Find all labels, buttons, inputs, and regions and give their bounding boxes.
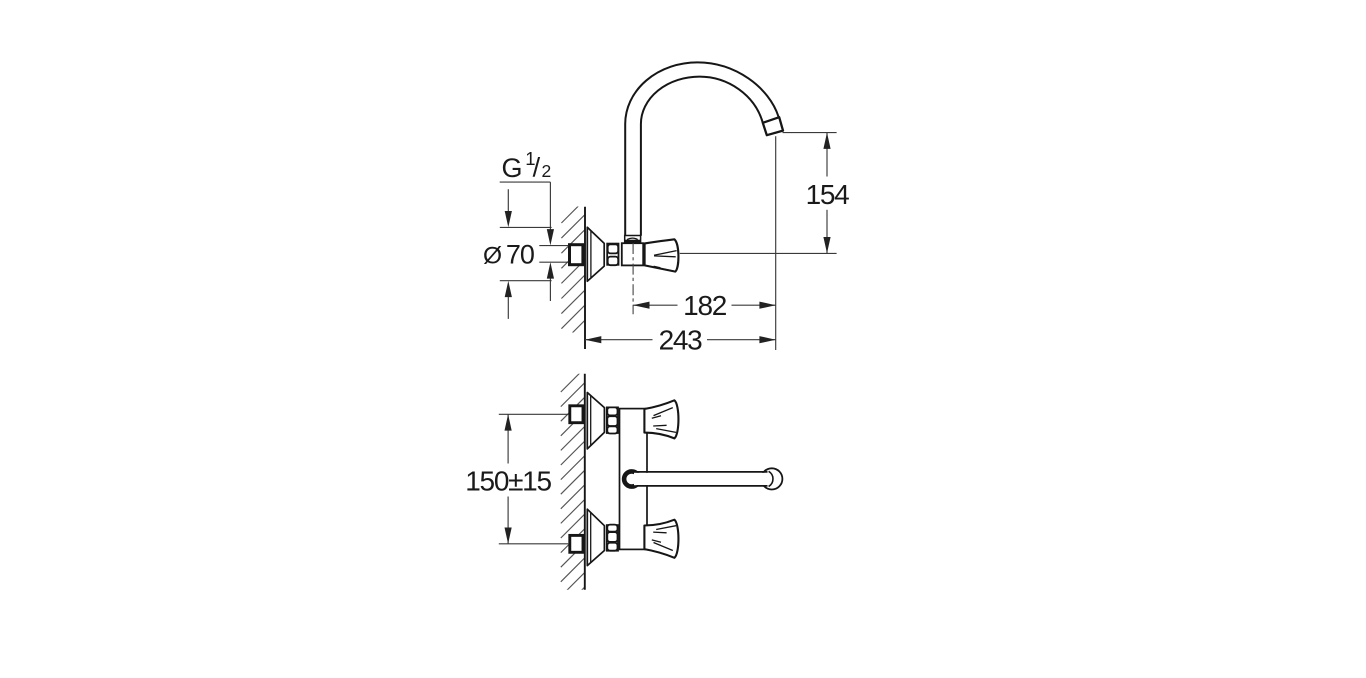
wall hatching (side view)	[561, 199, 585, 359]
spout tube end cap	[761, 468, 782, 489]
svg-text:G: G	[502, 153, 523, 183]
wall hatching (front view)	[561, 368, 585, 611]
handle knob (front view)	[644, 520, 678, 558]
svg-text:2: 2	[542, 161, 552, 181]
hex nut (front view)	[607, 525, 618, 551]
square fitting extension lines	[539, 245, 568, 247]
svg-text:154: 154	[806, 179, 850, 210]
centre line	[632, 243, 634, 314]
svg-text:70: 70	[506, 239, 534, 269]
dimension 243	[585, 339, 653, 341]
faucet body (front view)	[620, 409, 648, 550]
handle knob (side view)	[645, 239, 679, 271]
lower valve assembly (mirrored)	[570, 509, 679, 565]
dimension 182	[633, 304, 677, 306]
wall line (front view)	[584, 374, 586, 590]
G1/2 leader shelf and arrows	[500, 181, 551, 183]
extension line from spout tip	[775, 136, 777, 350]
wall line (side view)	[584, 207, 586, 349]
handle knob (front view)	[644, 400, 678, 438]
spout pipe + swan-neck arc	[625, 62, 779, 235]
hex nut (side view)	[607, 244, 618, 266]
G1/2 square union fitting (side view)	[570, 245, 583, 265]
valve body (side view)	[622, 243, 643, 265]
G1/2 square union (front view)	[570, 535, 583, 552]
escutcheon flange (front view)	[587, 393, 604, 449]
svg-text:243: 243	[659, 325, 703, 356]
svg-text:182: 182	[683, 290, 727, 321]
svg-text:Ø: Ø	[483, 242, 502, 269]
svg-text:150±15: 150±15	[465, 465, 551, 496]
diameter 70 extension lines + arrows	[500, 226, 552, 228]
hex nut (front view)	[607, 407, 618, 433]
G1/2 square union (front view)	[570, 406, 583, 423]
svg-text:/: /	[533, 152, 541, 182]
escutcheon flange (front view)	[587, 509, 604, 565]
escutcheon flange (side view)	[587, 227, 604, 281]
dimension 154	[783, 132, 837, 134]
spout swivel joint	[624, 471, 639, 486]
upper valve assembly	[570, 393, 679, 449]
spout tube (front view)	[634, 473, 768, 485]
dimension 150±15	[499, 413, 569, 415]
spout outlet tip	[763, 117, 783, 135]
end cap inner arc	[769, 471, 773, 486]
pipe collar	[625, 236, 641, 243]
